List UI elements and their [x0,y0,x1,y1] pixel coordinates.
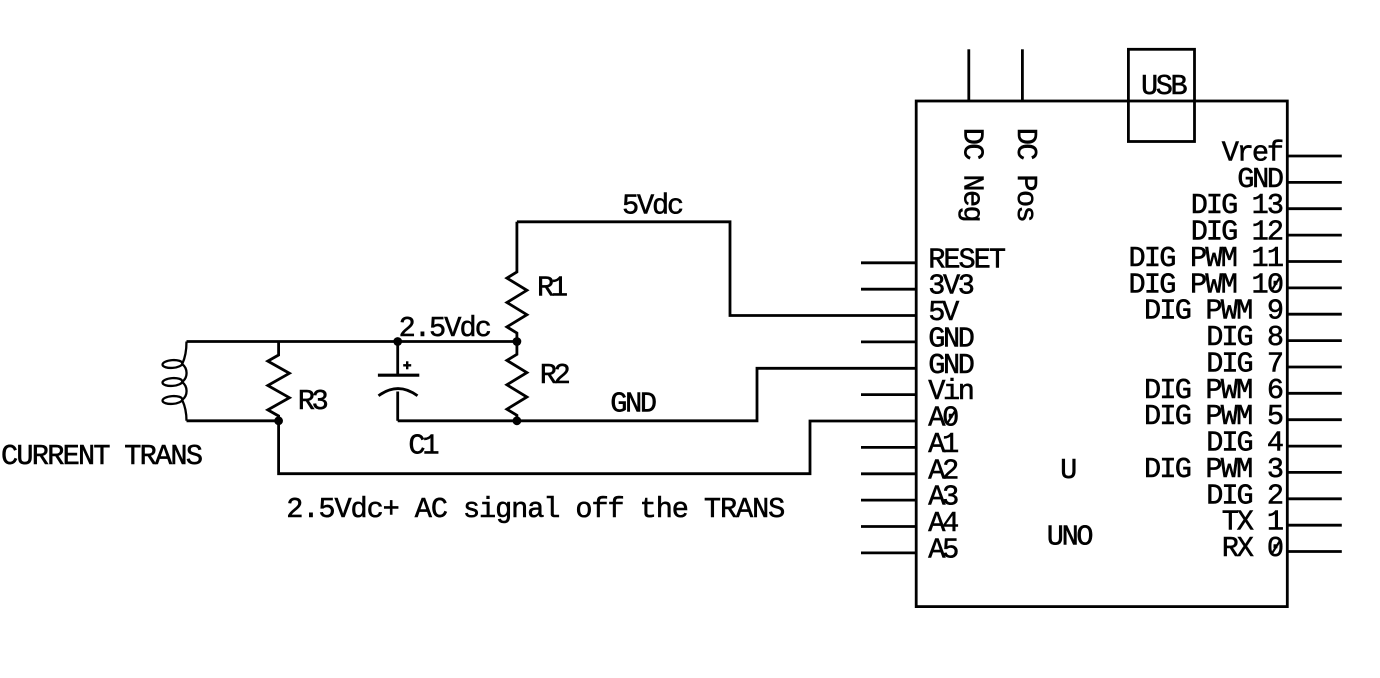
label CURRENT TRANS [1,440,203,473]
svg-text:2.5Vdc+ AC signal off the TRAN: 2.5Vdc+ AC signal off the TRANS [286,493,785,526]
label R1 [537,272,568,305]
svg-text:A5: A5 [928,533,959,566]
pin DIG PWM 6 (right 10) [1144,374,1342,407]
DC Neg power lead [967,49,970,101]
pin 5V (left 3) [928,296,959,329]
svg-text:R3: R3 [298,385,329,418]
svg-text:USB: USB [1141,70,1188,103]
label 5Vdc [622,189,684,222]
label 2.5Vdc+ AC signal off the TRANS [286,493,785,526]
pin DIG PWM 3 (right 13) [1144,453,1342,486]
resistor R2 [507,342,527,421]
slashed zero of DIG PWM 10 label [1272,277,1280,290]
USB connector box [1128,49,1194,141]
pin DIG 2 (right 14) [1206,479,1342,512]
svg-text:GND: GND [610,388,657,421]
label USB [1141,70,1188,103]
resistor R3 [268,342,290,421]
svg-text:CURRENT TRANS: CURRENT TRANS [1,440,203,473]
pin A1 (left 8) [861,428,959,461]
pin A3 (left 10) [861,481,959,514]
DC Pos power lead [1021,49,1024,101]
slashed zero of A0 label [947,410,955,423]
label R2 [540,359,571,392]
pin GND (right 2) [1237,163,1342,196]
pin GND (left 5) [928,349,975,382]
label DC Pos [1009,128,1042,223]
label GND [610,388,657,421]
label R3 [298,385,329,418]
svg-text:UNO: UNO [1047,520,1094,553]
node 2.5Vdc / capacitor C1 top junction [393,337,402,346]
wire 5Vdc (R1 top to 5V pin) [517,222,916,316]
wire GND (C1 bottom / R2 bottom to GND pin) [398,368,917,421]
Arduino UNO body U [916,101,1287,607]
pin A4 (left 11) [861,507,959,540]
label UNO [1047,520,1094,553]
svg-text:U: U [1060,454,1077,487]
pin DIG PWM 9 (right 7) [1144,295,1342,328]
pin DIG 8 (right 8) [1206,321,1342,354]
pin DIG 13 (right 3) [1191,189,1342,222]
node R1/R2 midpoint (2.5Vdc) [513,337,522,346]
svg-text:5Vdc: 5Vdc [622,189,684,222]
svg-text:DC Pos: DC Pos [1009,128,1042,223]
node R2 bottom / GND wire junction [513,416,522,425]
pin TX 1 (right 15) [1222,506,1342,539]
pin DIG 12 (right 4) [1191,216,1342,249]
label DC Neg [956,128,989,223]
svg-text:2.5Vdc: 2.5Vdc [399,312,492,345]
pin DIG PWM 11 (right 5) [1129,242,1342,275]
pin A5 (left 12) [861,533,959,566]
pin DIG PWM 5 (right 11) [1144,400,1342,433]
slashed zero of RX 0 label [1272,541,1280,554]
label C1 [408,430,439,463]
svg-text:DC Neg: DC Neg [956,128,989,223]
wire 2.5Vdc rail (coil top to R1/R2 midpoint) [187,340,517,343]
svg-text:R1: R1 [537,272,568,305]
pin 3V3 (left 2) [861,270,975,303]
node R3/coil/A0-signal junction [274,416,283,425]
pin RX 0 (right 16) [1222,532,1342,565]
wire A0 signal (R3 bottom to A0 pin) [279,421,917,474]
svg-text:R2: R2 [540,359,571,392]
pin DIG 4 (right 12) [1206,427,1342,460]
pin A0 (left 7) [928,402,959,435]
capacitor C1 [378,342,419,421]
pin A2 (left 9) [861,454,959,487]
pin Vref (right 1) [1222,137,1342,170]
resistor R1 [507,222,527,342]
pin GND (left 4) [861,322,975,355]
pin Vin (left 6) [861,375,975,408]
label U (designator) [1060,454,1077,487]
pin DIG 7 (right 9) [1206,348,1342,381]
pin DIG PWM 10 (right 6) [1129,268,1342,301]
transformer coil (current transformer primary) [162,342,186,421]
pin RESET (left 1) [861,243,1006,276]
wire coil bottom to R3 bottom [187,419,279,422]
svg-text:C1: C1 [408,430,439,463]
label 2.5Vdc [399,312,492,345]
